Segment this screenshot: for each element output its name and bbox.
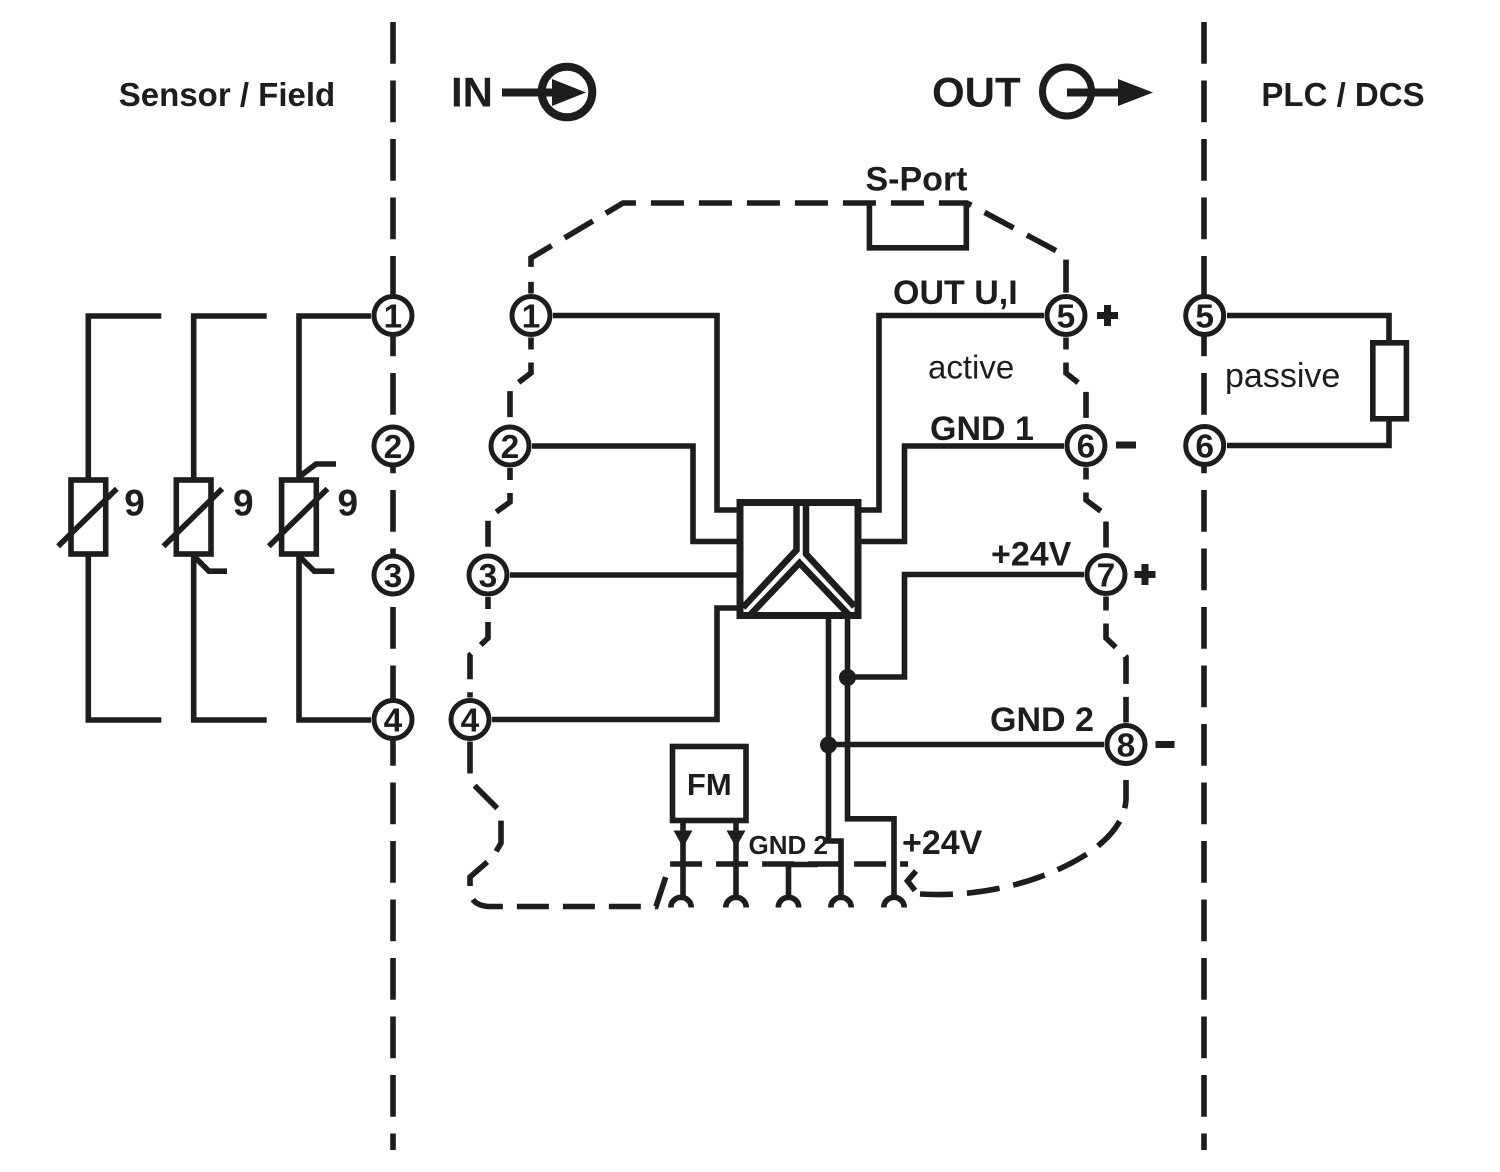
minus sign at terminal 6 bbox=[1116, 442, 1136, 449]
svg-text:PLC / DCS: PLC / DCS bbox=[1261, 76, 1424, 113]
OUT symbol ring bbox=[1043, 67, 1092, 116]
svg-text:9: 9 bbox=[338, 483, 359, 524]
svg-text:GND 2: GND 2 bbox=[749, 830, 828, 860]
plus sign at terminal 5 bbox=[1097, 305, 1118, 326]
FM box bbox=[673, 747, 747, 821]
isolator inner chevron bbox=[751, 563, 849, 615]
junction dot +24V bbox=[839, 669, 856, 686]
svg-text:8: 8 bbox=[1117, 728, 1136, 765]
wire PLC terminal 5 to resistor bbox=[1227, 316, 1389, 343]
svg-text:1: 1 bbox=[384, 299, 403, 336]
wire sensor3 top bbox=[299, 316, 371, 480]
wire +24V riser to terminal 7 bbox=[848, 575, 1085, 678]
svg-text:GND 1: GND 1 bbox=[930, 410, 1034, 448]
svg-text:+24V: +24V bbox=[991, 536, 1072, 574]
svg-text:5: 5 bbox=[1195, 299, 1214, 336]
RTD2 diagonal bbox=[164, 489, 223, 547]
isolator Y divider right bbox=[806, 503, 855, 607]
plug contact arc 3 bbox=[778, 897, 798, 907]
svg-text:7: 7 bbox=[1097, 558, 1116, 595]
plug contact arc 5 bbox=[884, 897, 904, 907]
svg-text:Sensor / Field: Sensor / Field bbox=[119, 76, 335, 113]
plug contact arc 2 bbox=[726, 897, 746, 907]
wire GND 1 : isolator to terminal 6 bbox=[858, 446, 1064, 542]
terminal circle PLC 6 bbox=[1186, 427, 1224, 465]
wire sensor2 bottom bbox=[194, 554, 267, 720]
wire terminal IN 1 to isolator bbox=[553, 316, 740, 511]
housing outline dashed bottom left bbox=[470, 742, 908, 907]
RTD3 third-wire bottom hook bbox=[299, 556, 334, 571]
separator line OUT | PLC/DCS bbox=[1201, 22, 1207, 1150]
svg-text:3: 3 bbox=[384, 558, 403, 595]
FM arrow left bbox=[674, 831, 693, 848]
svg-text:S-Port: S-Port bbox=[866, 161, 968, 199]
wire terminal IN 4 to isolator bbox=[492, 608, 740, 720]
housing outline dashed 2-3 bbox=[488, 468, 510, 553]
resistor RTD3 body bbox=[282, 480, 317, 554]
terminal circle field 3 bbox=[374, 556, 412, 594]
housing outline dashed 5-6 bbox=[1066, 338, 1086, 424]
svg-text:GND 2: GND 2 bbox=[990, 701, 1094, 739]
wire GND 2 to terminal 8 bbox=[829, 742, 1105, 748]
RTD1 diagonal bbox=[58, 489, 117, 547]
RTD2 third-wire hook bbox=[194, 556, 227, 571]
OUT symbol arrowhead bbox=[1118, 79, 1153, 106]
terminal circle PLC 5 bbox=[1186, 297, 1224, 335]
svg-text:2: 2 bbox=[384, 429, 403, 466]
wire sensor2 top bbox=[194, 316, 267, 480]
wire GND2 vertical from isolator to plug pin 4 bbox=[829, 616, 842, 897]
RTD3 fourth-wire top hook bbox=[299, 464, 336, 477]
svg-text:2: 2 bbox=[501, 429, 520, 466]
svg-text:3: 3 bbox=[479, 558, 498, 595]
svg-text:active: active bbox=[928, 349, 1014, 386]
wire sensor1 top bbox=[88, 316, 161, 480]
resistor RTD2 body bbox=[176, 480, 211, 554]
svg-text:6: 6 bbox=[1195, 429, 1214, 466]
separator line Sensor/Field | IN bbox=[390, 22, 396, 1150]
svg-text:IN: IN bbox=[451, 69, 493, 116]
svg-text:9: 9 bbox=[124, 483, 145, 524]
wire +24V vertical from isolator to plug pin 5 bbox=[848, 616, 895, 897]
wire sensor3 bottom bbox=[299, 554, 371, 720]
wire terminal IN 3 to isolator bbox=[510, 572, 740, 578]
FM pin wire right bbox=[733, 821, 739, 897]
resistor RTD1 body bbox=[71, 480, 106, 554]
svg-text:+24V: +24V bbox=[902, 824, 983, 862]
terminal circle field 1 bbox=[374, 297, 412, 335]
svg-text:4: 4 bbox=[461, 703, 480, 740]
svg-text:1: 1 bbox=[522, 299, 541, 336]
IN symbol arrow shaft bbox=[502, 89, 560, 97]
svg-text:OUT: OUT bbox=[932, 69, 1021, 116]
terminal circle IN 4 bbox=[451, 701, 489, 739]
plus sign at terminal 7 bbox=[1135, 564, 1156, 585]
housing outline dashed bottom right bbox=[908, 871, 917, 891]
wire sensor1 bottom bbox=[88, 554, 161, 720]
junction dot GND2 bbox=[820, 737, 837, 754]
svg-text:5: 5 bbox=[1057, 299, 1076, 336]
housing outline dashed 1-2 bbox=[510, 338, 531, 425]
OUT symbol arrow shaft bbox=[1067, 89, 1122, 97]
housing outline dashed top: terminal 1 to S-Port to terminal 5 bbox=[531, 203, 1066, 294]
FM arrow right bbox=[727, 831, 746, 848]
terminal circle OUT 6 bbox=[1067, 427, 1105, 465]
housing outline dashed bottom right sweep bbox=[920, 780, 1126, 895]
minus sign at terminal 8 bbox=[1156, 741, 1175, 748]
resistor passive load body bbox=[1373, 343, 1407, 419]
plug pin 3 elbow dash bbox=[789, 862, 819, 868]
svg-text:FM: FM bbox=[687, 767, 732, 802]
plug pin 3 stub bbox=[786, 864, 792, 896]
wire OUT U,I : isolator to terminal 5 bbox=[858, 316, 1044, 511]
isolation amplifier box U1 bbox=[740, 503, 858, 616]
FM pin wire left bbox=[680, 821, 686, 897]
terminal circle IN 1 bbox=[512, 297, 550, 335]
wire resistor to PLC terminal 6 bbox=[1227, 419, 1389, 446]
terminal circle IN 3 bbox=[469, 556, 507, 594]
plug contact arc 1 bbox=[671, 897, 691, 907]
plug contact arc 4 bbox=[831, 897, 851, 907]
IN symbol arrowhead bbox=[552, 79, 586, 106]
svg-text:passive: passive bbox=[1225, 357, 1340, 395]
svg-text:6: 6 bbox=[1077, 429, 1096, 466]
housing outline dashed 6-7 bbox=[1086, 468, 1106, 553]
svg-text:OUT U,I: OUT U,I bbox=[893, 274, 1018, 312]
S-Port box bbox=[869, 202, 966, 248]
terminal circle IN 2 bbox=[491, 427, 529, 465]
RTD3 diagonal bbox=[269, 489, 328, 547]
terminal circle field 2 bbox=[374, 427, 412, 465]
wire terminal IN 2 to isolator bbox=[532, 446, 740, 542]
IN symbol ring bbox=[542, 67, 593, 118]
terminal circle field 4 bbox=[374, 701, 412, 739]
housing outline dashed 7-8 bbox=[1106, 597, 1126, 723]
terminal circle OUT 8 bbox=[1107, 726, 1145, 764]
svg-text:9: 9 bbox=[233, 483, 254, 524]
terminal circle OUT 7 bbox=[1087, 556, 1125, 594]
isolator Y divider left bbox=[743, 503, 797, 608]
svg-text:4: 4 bbox=[384, 703, 403, 740]
terminal circle OUT 5 bbox=[1047, 297, 1085, 335]
housing outline dashed 3-4 bbox=[470, 597, 488, 698]
